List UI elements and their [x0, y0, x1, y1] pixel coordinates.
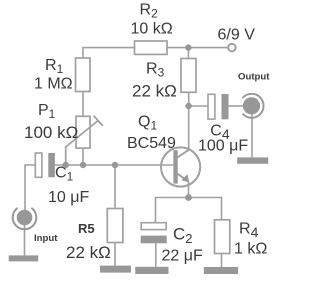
resistor R4	[215, 220, 230, 254]
node: R5 junction on base line	[112, 162, 118, 168]
wire: R2 right to 6/9V terminal	[167, 47, 228, 49]
node: collector junction (R3/C4/Q1)	[185, 103, 191, 109]
wire: input jack to ground	[24, 225, 26, 256]
ground: R5	[100, 266, 131, 273]
ground: output jack	[237, 157, 268, 163]
svg-text:22 μF: 22 μF	[162, 247, 203, 264]
wire: output jack sleeve to ground	[251, 114, 253, 157]
svg-text:1 kΩ: 1 kΩ	[234, 241, 267, 258]
resistor R2	[135, 41, 168, 54]
node: supply junction (R2/R3/terminal)	[185, 44, 191, 50]
wire: R3 top lead	[187, 48, 189, 59]
wire: C1 left plate to input jack	[25, 165, 36, 210]
wire: emitter node right to R4 top	[189, 198, 222, 220]
svg-text:P1: P1	[38, 102, 56, 121]
svg-text:22 kΩ: 22 kΩ	[66, 243, 111, 262]
terminal: 6/9 V supply	[228, 44, 236, 52]
node: P1 bottom junction on base line	[80, 162, 86, 168]
potentiometer P1	[66, 116, 103, 165]
svg-text:100 μF: 100 μF	[198, 138, 248, 155]
wire: R3 bottom lead down to Q1 collector	[188, 92, 190, 150]
ground: input jack	[9, 255, 39, 261]
svg-text:6/9 V: 6/9 V	[218, 27, 256, 44]
svg-text:R4: R4	[239, 221, 259, 241]
svg-text:Input: Input	[34, 233, 58, 244]
transistor Q1	[161, 147, 200, 197]
svg-text:R5: R5	[78, 221, 95, 236]
output jack connector	[243, 94, 264, 118]
svg-text:R2: R2	[140, 2, 159, 21]
svg-text:BC549: BC549	[127, 135, 176, 152]
capacitor C4	[208, 94, 229, 119]
svg-text:100 kΩ: 100 kΩ	[24, 123, 78, 142]
svg-text:10 μF: 10 μF	[48, 189, 89, 206]
wire: collector node to C4 left plate	[189, 105, 209, 107]
wire: P1 bottom lead to base line	[82, 148, 84, 165]
svg-text:1 MΩ: 1 MΩ	[34, 76, 73, 93]
ground: C2	[135, 267, 168, 274]
svg-text:10 kΩ: 10 kΩ	[131, 21, 173, 38]
wire: R5 bottom to ground	[114, 242, 116, 266]
resistor R1	[76, 58, 91, 92]
wire: emitter node left to C2	[156, 198, 189, 223]
wire: C4 right plate to output jack	[228, 105, 243, 107]
capacitor C2	[141, 223, 167, 244]
svg-text:Output: Output	[238, 71, 270, 82]
node: emitter junction (Q1/C2/R4)	[185, 194, 192, 201]
svg-text:R1: R1	[45, 57, 64, 76]
svg-text:Q1: Q1	[138, 114, 157, 133]
wire: R1 bottom to P1 top	[82, 92, 84, 117]
ground: R4	[204, 267, 238, 274]
wire: base line from C1 to Q1 base	[55, 164, 174, 166]
capacitor C1	[35, 153, 55, 177]
wire: C2 bottom plate to ground	[155, 243, 157, 266]
wire: base line to R5 top	[114, 165, 116, 209]
wire: R4 bottom to ground	[221, 253, 223, 267]
resistor R5	[107, 209, 123, 243]
svg-text:C2: C2	[173, 225, 193, 247]
node: wiper junction on base line	[62, 162, 68, 168]
svg-text:22 kΩ: 22 kΩ	[132, 82, 177, 101]
svg-text:R3: R3	[146, 60, 165, 79]
wire: R1 top to R2 left (supply rail left segment)	[83, 48, 135, 58]
input jack connector	[13, 208, 37, 229]
resistor R3	[181, 59, 196, 93]
